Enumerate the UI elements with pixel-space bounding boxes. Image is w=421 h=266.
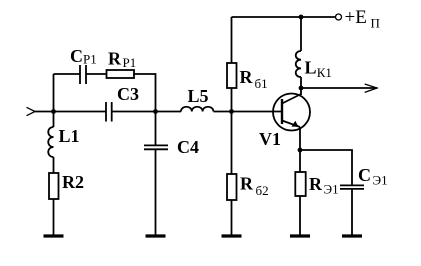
node D (rail junction)	[299, 15, 304, 20]
svg-text:V1: V1	[259, 129, 281, 149]
svg-text:L5: L5	[188, 86, 209, 106]
wire (node A up to top branch)	[53, 74, 55, 112]
ground (input branch)	[44, 234, 64, 237]
capacitor CP1	[80, 65, 86, 84]
wire (node D down to LK1)	[300, 17, 302, 51]
ground (CE1 branch)	[342, 234, 362, 237]
svg-text:R: R	[309, 174, 323, 194]
svg-text:б1: б1	[255, 76, 268, 91]
terminal +Ep	[336, 14, 342, 20]
wire (node A to C3)	[54, 111, 107, 113]
label CE1	[358, 165, 388, 188]
label CP1	[70, 46, 97, 67]
resistor RP1	[107, 70, 135, 78]
inductor LK1	[296, 51, 301, 77]
label Rb1	[240, 67, 268, 91]
label LK1	[305, 58, 332, 81]
svg-text:б2: б2	[256, 183, 269, 198]
ground (C4 branch)	[146, 234, 166, 237]
svg-text:К1: К1	[317, 65, 332, 80]
wire (node F to RE1)	[299, 150, 301, 172]
wire (node C down to Rb2)	[231, 112, 233, 175]
svg-text:Э1: Э1	[324, 182, 339, 197]
wire (RE1 to ground)	[299, 196, 301, 235]
wire (node E down to collector)	[300, 88, 302, 95]
inductor L5	[181, 107, 213, 112]
wire (top branch left)	[54, 73, 81, 75]
svg-text:C4: C4	[177, 137, 199, 157]
svg-text:L1: L1	[59, 126, 80, 146]
wire (C3 to node B)	[112, 111, 156, 113]
capacitor C4	[144, 145, 168, 149]
svg-text:C3: C3	[117, 84, 139, 104]
resistor R2	[49, 173, 59, 199]
label +Ep	[345, 7, 380, 31]
wire (CE1 to ground)	[351, 189, 353, 235]
node E (collector node)	[299, 86, 304, 91]
inductor L1	[48, 127, 53, 157]
label RP1	[108, 49, 136, 71]
label Rb2	[240, 174, 269, 199]
ground (Rb2 branch)	[222, 234, 242, 237]
wire (L1 to R2)	[53, 157, 55, 173]
svg-text:P1: P1	[123, 55, 137, 70]
svg-text:C: C	[358, 165, 371, 185]
wire (RP1 to right corner of top branch)	[134, 74, 156, 112]
wire (Rb1 to node C)	[231, 88, 233, 112]
resistor Rb2	[227, 174, 237, 200]
output arrow	[301, 84, 377, 92]
wire (rail down to Rb1)	[231, 17, 233, 63]
node B	[153, 109, 158, 114]
svg-text:P1: P1	[83, 52, 97, 67]
svg-text:R: R	[108, 49, 122, 69]
wire (node B to L5)	[156, 111, 182, 113]
ground (RE1 branch)	[290, 234, 310, 237]
wire (node A down to L1)	[53, 112, 55, 128]
resistor RE1	[295, 172, 305, 196]
svg-text:Э1: Э1	[373, 173, 388, 188]
input arrow	[27, 107, 54, 115]
svg-text:+E: +E	[345, 7, 367, 28]
wire (C4 to ground)	[155, 149, 157, 234]
wire (Rb2 to ground)	[231, 200, 233, 235]
wire (node F to CE1)	[300, 150, 352, 185]
wire (top rail)	[232, 16, 336, 18]
svg-text:R2: R2	[62, 172, 84, 192]
node A (input node)	[51, 109, 56, 114]
resistor Rb1	[227, 63, 237, 88]
svg-text:П: П	[371, 16, 380, 31]
capacitor CE1	[340, 185, 364, 189]
svg-text:C: C	[70, 46, 83, 66]
svg-text:R: R	[240, 67, 254, 87]
svg-text:L: L	[305, 58, 317, 78]
wire (R2 to ground)	[53, 199, 55, 235]
capacitor C3	[106, 102, 112, 122]
node C (base divider node)	[229, 109, 234, 114]
wire (emitter down to node F)	[299, 127, 301, 150]
transistor V1	[273, 94, 310, 131]
svg-text:R: R	[240, 174, 254, 194]
wire (node C to transistor base)	[232, 111, 283, 113]
wire (node B down to C4)	[155, 112, 157, 146]
label RE1	[309, 174, 339, 197]
wire (CP1 to RP1)	[86, 73, 107, 75]
wire (LK1 to node E)	[300, 77, 302, 88]
node F (emitter node)	[298, 148, 303, 153]
wire (L5 to node C)	[214, 111, 232, 113]
